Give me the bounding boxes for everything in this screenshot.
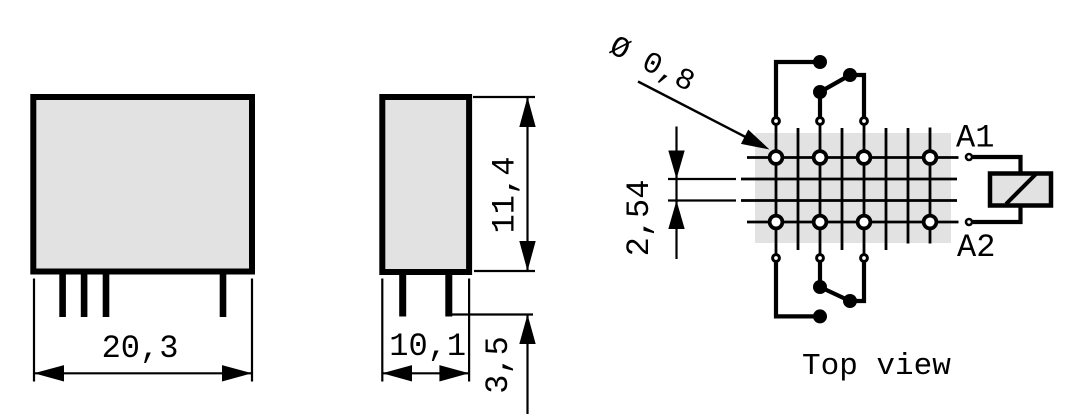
dimension line 11,4 bbox=[519, 97, 535, 271]
pad hole bottom row col1 bbox=[770, 216, 783, 229]
contact wire bottom col1 to dot bbox=[776, 260, 820, 316]
front view pin 3 bbox=[103, 275, 110, 318]
extension line lower of 2,54 dimension bbox=[668, 199, 736, 201]
dimension line 10,1 bbox=[382, 365, 469, 381]
switch arm top (diagonal) bbox=[820, 75, 850, 92]
dimension line 20,3 bbox=[34, 365, 252, 381]
pad hole bottom row col4 bbox=[924, 216, 937, 229]
svg-text:11,4: 11,4 bbox=[487, 157, 524, 234]
solder dot bottom end col1 wire bbox=[813, 309, 827, 323]
dimension line 2,54 bbox=[668, 127, 684, 260]
grid row line 3 bbox=[741, 199, 957, 202]
grid row line 4 (through bottom pads) bbox=[747, 221, 959, 224]
extension line bottom of 11,4 dimension bbox=[474, 270, 535, 272]
grid column line 6 bbox=[885, 128, 888, 250]
pad hole top row col4 bbox=[924, 151, 937, 164]
svg-text:A1: A1 bbox=[956, 120, 994, 157]
grid column line 1 (through pads col 1) bbox=[775, 121, 778, 258]
grid column line 4 bbox=[841, 128, 844, 250]
switch arm bottom (diagonal) bbox=[820, 287, 850, 301]
switch arm end dot bottom bbox=[843, 294, 857, 308]
pad hole top row col1 bbox=[770, 151, 783, 164]
side view pin 2 bbox=[445, 275, 452, 317]
contact wire top col1 to dot bbox=[776, 62, 820, 119]
relay body side view outline bbox=[382, 97, 469, 272]
grid row line 1 (through top pads) bbox=[747, 156, 959, 159]
relay body front view outline bbox=[33, 97, 252, 272]
extension line left of 20,3 dimension bbox=[33, 279, 35, 382]
side view pin 1 bbox=[399, 275, 406, 317]
svg-text:3,5: 3,5 bbox=[480, 336, 517, 394]
grid column line 7 bbox=[907, 128, 910, 244]
dimension line 3,5 bbox=[519, 315, 535, 414]
grid column line 8 (through pads col 4) bbox=[929, 128, 932, 244]
grid column line 3 (through pads col 2) bbox=[819, 121, 822, 258]
coil wire A2 bbox=[973, 206, 1021, 223]
contact wire bottom col2 stub bbox=[818, 260, 822, 287]
extension line upper of 2,54 dimension bbox=[668, 178, 736, 180]
contact pivot dot bottom col2 bbox=[813, 280, 827, 294]
pad hole bottom row col3 bbox=[858, 216, 871, 229]
svg-text:Top view: Top view bbox=[802, 349, 951, 384]
solder dot top end col1 wire bbox=[813, 55, 827, 69]
svg-text:A2: A2 bbox=[957, 229, 995, 266]
pcb grid shaded area bbox=[755, 133, 951, 243]
extension line top of 11,4 dimension bbox=[473, 96, 535, 98]
pad hole top row col2 bbox=[814, 151, 827, 164]
pad hole bottom row col2 bbox=[814, 216, 827, 229]
svg-text:10,1: 10,1 bbox=[389, 328, 466, 365]
extension line right of 20,3 dimension bbox=[251, 279, 253, 382]
coil terminal circle A2 bbox=[966, 219, 972, 225]
extension line right of 10,1 dimension bbox=[468, 279, 470, 382]
coil wire A1 bbox=[973, 157, 1021, 174]
contact terminal circle top col3 bbox=[861, 118, 868, 125]
contact pivot dot top col2 bbox=[813, 85, 827, 99]
extension line left of 10,1 dimension bbox=[381, 279, 383, 382]
contact wire bottom col3 bbox=[850, 260, 864, 301]
contact terminal circle bottom col1 bbox=[773, 255, 780, 262]
grid column line 5 (through pads col 3) bbox=[863, 121, 866, 258]
contact wire top col3 bbox=[850, 75, 864, 119]
svg-text:2,54: 2,54 bbox=[621, 180, 658, 257]
front view pin 2 bbox=[81, 275, 88, 318]
switch arm end dot top bbox=[843, 68, 857, 82]
grid row line 2 bbox=[741, 178, 957, 181]
grid column line 2 bbox=[797, 128, 800, 250]
contact wire top col2 stub bbox=[818, 92, 822, 119]
front view pin 4 bbox=[220, 275, 227, 318]
relay coil K1 bbox=[990, 174, 1051, 206]
contact terminal circle bottom col3 bbox=[861, 255, 868, 262]
contact terminal circle bottom col2 bbox=[817, 255, 824, 262]
contact terminal circle top col2 bbox=[817, 118, 824, 125]
leader line to pad hole bbox=[638, 82, 770, 150]
pad hole top row col3 bbox=[858, 151, 871, 164]
contact terminal circle top col1 bbox=[773, 118, 780, 125]
front view pin 1 bbox=[59, 275, 66, 318]
extension line top of 3,5 dimension bbox=[452, 313, 533, 315]
svg-text:20,3: 20,3 bbox=[102, 330, 179, 367]
coil terminal circle A1 bbox=[966, 154, 972, 160]
